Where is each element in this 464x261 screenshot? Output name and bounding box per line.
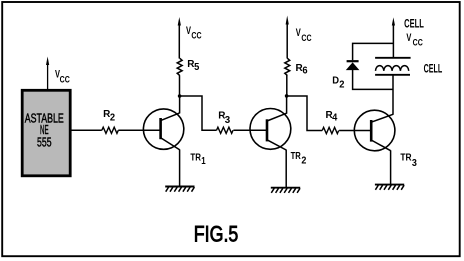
svg-text:2: 2	[110, 112, 116, 123]
svg-text:FIG.5: FIG.5	[194, 221, 239, 246]
svg-text:CELL: CELL	[424, 63, 443, 75]
svg-text:5: 5	[194, 62, 200, 73]
svg-text:CELL: CELL	[404, 19, 424, 31]
svg-text:CC: CC	[413, 38, 424, 48]
svg-text:555: 555	[37, 135, 52, 149]
svg-text:CC: CC	[60, 75, 71, 85]
svg-text:CC: CC	[301, 33, 312, 43]
svg-text:1: 1	[201, 156, 206, 167]
svg-text:CC: CC	[191, 31, 202, 41]
svg-text:6: 6	[302, 65, 308, 76]
svg-text:V: V	[406, 32, 411, 44]
svg-text:2: 2	[301, 155, 306, 166]
svg-text:4: 4	[332, 112, 338, 123]
svg-text:TR: TR	[291, 151, 302, 162]
svg-text:TR: TR	[190, 153, 201, 164]
svg-text:TR: TR	[400, 152, 412, 163]
svg-text:2: 2	[339, 80, 345, 91]
svg-text:3: 3	[225, 115, 231, 126]
svg-text:V: V	[296, 27, 301, 39]
svg-text:3: 3	[412, 158, 417, 169]
